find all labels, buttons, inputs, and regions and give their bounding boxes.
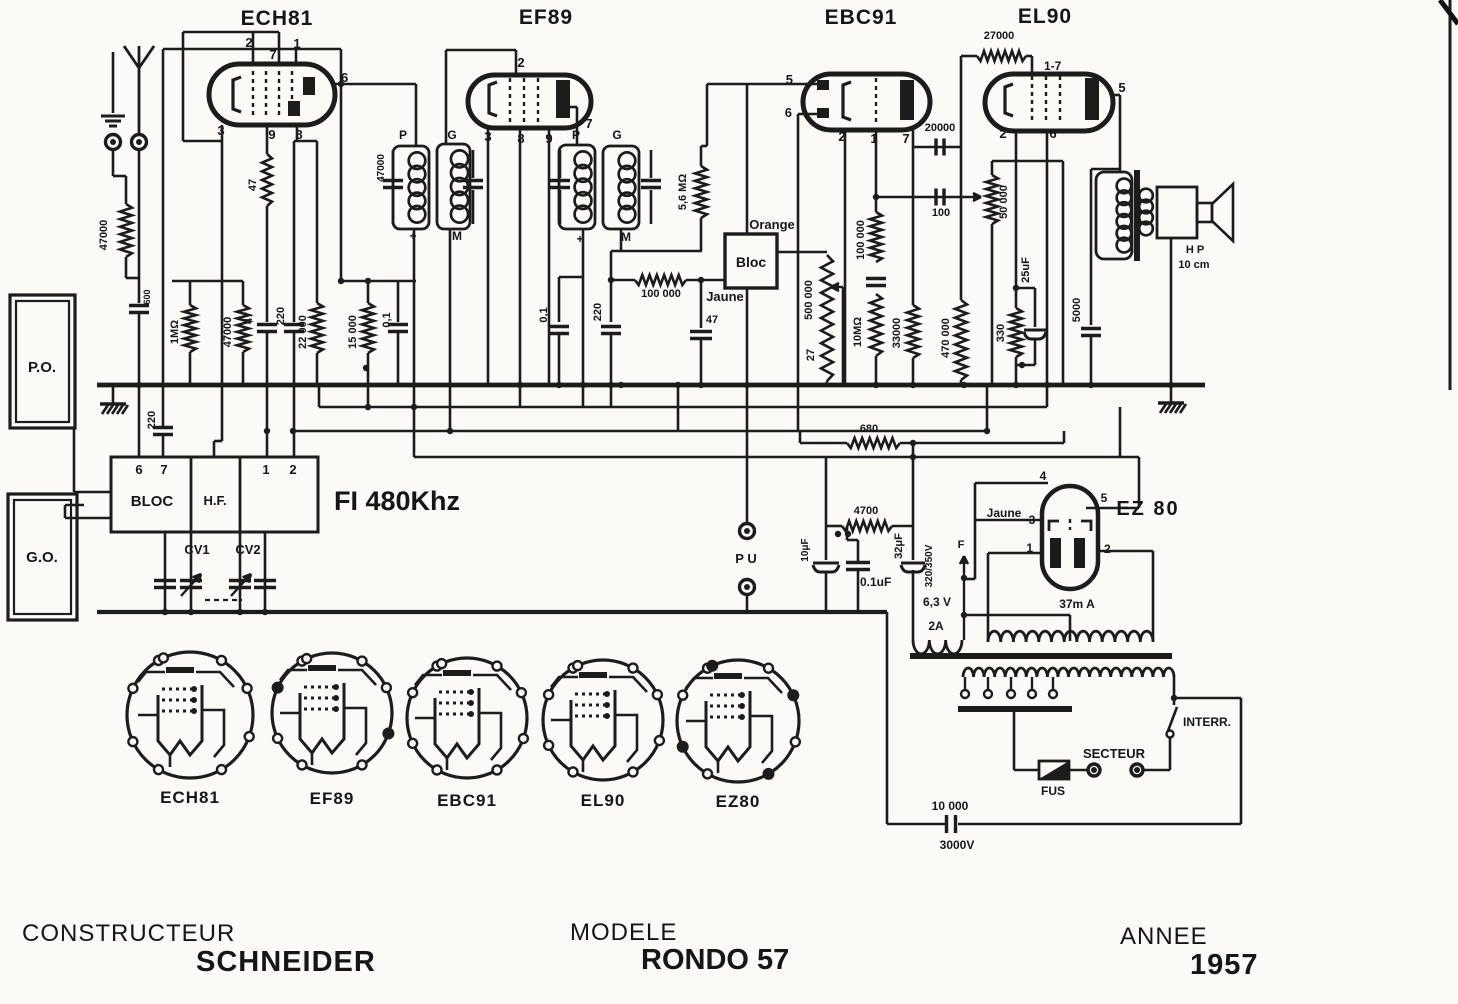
svg-text:M: M xyxy=(621,230,631,244)
svg-text:2: 2 xyxy=(1104,542,1111,556)
svg-text:BLOC: BLOC xyxy=(131,493,174,510)
svg-text:37m A: 37m A xyxy=(1059,597,1095,611)
svg-text:220: 220 xyxy=(592,303,604,321)
svg-text:27000: 27000 xyxy=(984,30,1015,42)
svg-text:5,6 MΩ: 5,6 MΩ xyxy=(677,174,689,211)
svg-text:Jaune: Jaune xyxy=(706,289,744,304)
svg-text:Orange: Orange xyxy=(749,217,795,232)
svg-text:47: 47 xyxy=(706,314,718,326)
svg-text:47000: 47000 xyxy=(222,317,234,348)
svg-text:3000V: 3000V xyxy=(940,838,975,852)
svg-text:P: P xyxy=(572,128,580,142)
svg-text:5: 5 xyxy=(1101,491,1108,505)
svg-text:6: 6 xyxy=(135,462,142,477)
svg-text:220: 220 xyxy=(146,411,158,429)
svg-text:100 000: 100 000 xyxy=(855,220,867,260)
svg-text:47000: 47000 xyxy=(98,220,110,251)
svg-text:ECH81: ECH81 xyxy=(241,7,314,30)
svg-text:Jaune: Jaune xyxy=(987,506,1022,520)
svg-text:2A: 2A xyxy=(928,619,944,633)
svg-text:2: 2 xyxy=(289,462,296,477)
svg-text:EZ 80: EZ 80 xyxy=(1116,498,1179,520)
svg-text:470 000: 470 000 xyxy=(940,318,952,358)
svg-text:EL90: EL90 xyxy=(1018,5,1072,28)
svg-text:4: 4 xyxy=(1040,469,1047,483)
svg-text:H P: H P xyxy=(1186,244,1204,256)
svg-text:P U: P U xyxy=(735,551,756,566)
svg-text:G: G xyxy=(612,128,621,142)
svg-text:27: 27 xyxy=(805,349,817,361)
svg-text:P.O.: P.O. xyxy=(28,359,56,376)
svg-text:47000: 47000 xyxy=(376,154,387,182)
svg-text:EF89: EF89 xyxy=(519,6,573,29)
svg-text:680: 680 xyxy=(860,423,878,435)
svg-text:5: 5 xyxy=(1118,80,1125,95)
svg-text:M: M xyxy=(452,229,462,243)
svg-text:F: F xyxy=(958,539,965,551)
svg-text:20000: 20000 xyxy=(925,122,956,134)
svg-text:3: 3 xyxy=(1029,513,1036,527)
svg-text:H.F.: H.F. xyxy=(203,493,226,508)
svg-text:6,3 V: 6,3 V xyxy=(923,595,951,609)
svg-text:15 000: 15 000 xyxy=(347,315,359,349)
svg-text:CV1: CV1 xyxy=(184,542,209,557)
svg-text:EBC91: EBC91 xyxy=(437,791,497,810)
svg-text:+: + xyxy=(409,229,416,243)
svg-text:50 000: 50 000 xyxy=(998,185,1010,219)
svg-text:FUS: FUS xyxy=(1041,784,1065,798)
svg-text:EF89: EF89 xyxy=(310,789,355,808)
svg-text:100: 100 xyxy=(932,207,950,219)
svg-text:6: 6 xyxy=(1049,126,1056,141)
svg-text:2: 2 xyxy=(999,126,1006,141)
svg-text:6: 6 xyxy=(785,105,792,120)
svg-text:SCHNEIDER: SCHNEIDER xyxy=(196,946,376,978)
svg-text:47: 47 xyxy=(247,179,259,191)
svg-text:FI 480Khz: FI 480Khz xyxy=(334,486,460,516)
svg-text:INTERR.: INTERR. xyxy=(1183,715,1231,729)
svg-text:G: G xyxy=(447,128,456,142)
svg-text:600: 600 xyxy=(142,289,152,304)
svg-text:1MΩ: 1MΩ xyxy=(169,320,181,344)
svg-text:7: 7 xyxy=(585,116,592,131)
svg-text:Bloc: Bloc xyxy=(736,254,767,270)
svg-text:5000: 5000 xyxy=(1071,298,1083,322)
svg-text:1: 1 xyxy=(262,462,269,477)
svg-text:10MΩ: 10MΩ xyxy=(852,317,864,347)
svg-text:CONSTRUCTEUR: CONSTRUCTEUR xyxy=(22,920,235,947)
svg-text:10μF: 10μF xyxy=(800,538,811,561)
svg-text:10 000: 10 000 xyxy=(932,799,969,813)
svg-text:7: 7 xyxy=(160,462,167,477)
svg-text:EL90: EL90 xyxy=(581,791,626,810)
svg-text:0,1: 0,1 xyxy=(538,307,550,322)
svg-text:P: P xyxy=(399,128,407,142)
svg-text:0,1: 0,1 xyxy=(381,312,393,327)
svg-text:ECH81: ECH81 xyxy=(160,788,220,807)
svg-text:EZ80: EZ80 xyxy=(716,792,761,811)
svg-text:33000: 33000 xyxy=(891,318,903,349)
svg-text:RONDO 57: RONDO 57 xyxy=(641,944,789,976)
svg-text:25uF: 25uF xyxy=(1020,257,1032,283)
svg-text:22 000: 22 000 xyxy=(297,315,309,349)
svg-text:220: 220 xyxy=(275,307,287,325)
svg-text:0.1uF: 0.1uF xyxy=(860,575,891,589)
svg-text:4700: 4700 xyxy=(854,505,878,517)
svg-text:1957: 1957 xyxy=(1190,949,1259,981)
svg-text:330: 330 xyxy=(995,324,1007,342)
svg-text:G.O.: G.O. xyxy=(26,549,58,566)
svg-text:2: 2 xyxy=(517,55,524,70)
svg-text:CV2: CV2 xyxy=(235,542,260,557)
svg-text:ANNEE: ANNEE xyxy=(1120,923,1208,950)
svg-text:9: 9 xyxy=(268,127,275,142)
svg-text:10 cm: 10 cm xyxy=(1178,259,1209,271)
svg-text:EBC91: EBC91 xyxy=(825,6,898,29)
svg-text:MODELE: MODELE xyxy=(570,919,677,946)
svg-text:320/350V: 320/350V xyxy=(924,544,935,587)
svg-text:1-7: 1-7 xyxy=(1044,59,1062,73)
svg-text:32μF: 32μF xyxy=(893,533,905,559)
svg-text:100 000: 100 000 xyxy=(641,288,681,300)
svg-text:SECTEUR: SECTEUR xyxy=(1083,746,1146,761)
svg-text:500 000: 500 000 xyxy=(803,280,815,320)
svg-text:7: 7 xyxy=(902,131,909,146)
